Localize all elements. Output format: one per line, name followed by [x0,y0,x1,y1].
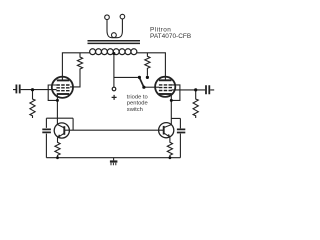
svg-text:switch: switch [127,107,143,113]
svg-text:PAT4070-CFB: PAT4070-CFB [150,33,191,40]
svg-text:pentode: pentode [127,101,148,107]
svg-text:triode to: triode to [127,94,148,100]
